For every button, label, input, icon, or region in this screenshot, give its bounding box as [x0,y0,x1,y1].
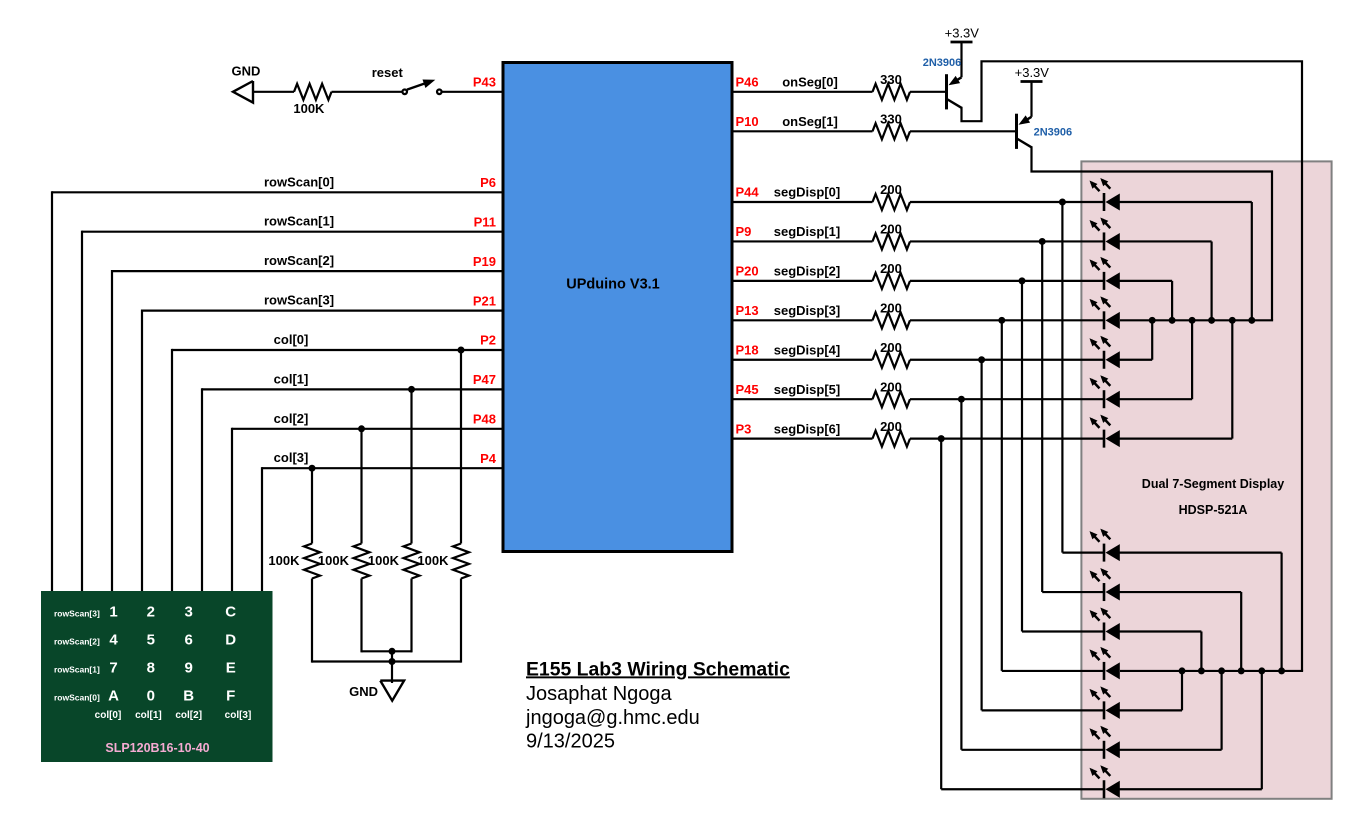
svg-text:1: 1 [109,604,117,621]
svg-text:rowScan[3]: rowScan[3] [264,293,334,308]
svg-text:P18: P18 [736,342,759,357]
svg-text:onSeg[0]: onSeg[0] [782,75,838,90]
svg-text:F: F [226,688,235,705]
svg-text:rowScan[2]: rowScan[2] [264,253,334,268]
svg-text:200: 200 [880,182,902,197]
svg-text:8: 8 [147,660,155,677]
svg-text:segDisp[4]: segDisp[4] [774,342,840,357]
svg-text:col[0]: col[0] [95,710,122,721]
svg-text:P9: P9 [736,224,752,239]
svg-text:C: C [225,604,236,621]
svg-text:200: 200 [880,222,902,237]
svg-text:P46: P46 [736,75,759,90]
svg-text:col[2]: col[2] [274,411,309,426]
svg-text:rowScan[3]: rowScan[3] [54,609,100,619]
svg-text:col[1]: col[1] [274,371,309,386]
svg-text:P11: P11 [474,214,496,229]
svg-text:330: 330 [880,112,902,127]
svg-text:200: 200 [880,261,902,276]
svg-text:2N3906: 2N3906 [1034,126,1073,138]
svg-text:4: 4 [109,632,118,649]
svg-text:+3.3V: +3.3V [1015,65,1050,80]
svg-text:D: D [225,632,236,649]
svg-text:P48: P48 [473,412,496,427]
svg-text:HDSP-521A: HDSP-521A [1179,503,1248,517]
svg-text:reset: reset [372,65,404,80]
svg-text:100K: 100K [417,553,449,568]
svg-text:2N3906: 2N3906 [923,57,962,69]
svg-text:200: 200 [880,340,902,355]
svg-text:P4: P4 [480,451,497,466]
svg-text:+3.3V: +3.3V [945,26,980,41]
svg-text:col[3]: col[3] [225,710,252,721]
svg-text:E: E [226,660,236,677]
svg-text:col[1]: col[1] [135,710,162,721]
svg-text:100K: 100K [268,553,300,568]
svg-text:6: 6 [185,632,193,649]
svg-text:P10: P10 [736,114,759,129]
svg-text:rowScan[0]: rowScan[0] [264,174,334,189]
svg-text:100K: 100K [318,553,350,568]
svg-text:col[3]: col[3] [274,450,309,465]
svg-text:100K: 100K [368,553,400,568]
svg-text:2: 2 [147,604,155,621]
svg-text:9/13/2025: 9/13/2025 [526,730,615,752]
svg-text:UPduino V3.1: UPduino V3.1 [566,277,659,293]
svg-text:E155 Lab3 Wiring Schematic: E155 Lab3 Wiring Schematic [526,658,790,680]
svg-text:segDisp[6]: segDisp[6] [774,421,840,436]
svg-text:P47: P47 [473,372,496,387]
svg-text:onSeg[1]: onSeg[1] [782,114,838,129]
svg-text:col[2]: col[2] [175,710,202,721]
svg-text:330: 330 [880,72,902,87]
svg-text:100K: 100K [293,101,325,116]
svg-text:3: 3 [185,604,193,621]
svg-text:P13: P13 [736,303,759,318]
svg-text:rowScan[2]: rowScan[2] [54,637,100,647]
svg-text:P6: P6 [480,175,496,190]
svg-text:segDisp[2]: segDisp[2] [774,264,840,279]
svg-text:rowScan[0]: rowScan[0] [54,693,100,703]
svg-text:7: 7 [109,660,117,677]
svg-text:200: 200 [880,419,902,434]
svg-text:col[0]: col[0] [274,332,309,347]
svg-text:jngoga@g.hmc.edu: jngoga@g.hmc.edu [525,707,700,729]
svg-text:A: A [108,688,119,705]
svg-text:P20: P20 [736,264,759,279]
svg-text:GND: GND [349,684,378,699]
svg-text:9: 9 [185,660,193,677]
svg-text:Dual 7-Segment Display: Dual 7-Segment Display [1142,477,1284,491]
svg-text:rowScan[1]: rowScan[1] [54,665,100,675]
svg-text:segDisp[3]: segDisp[3] [774,303,840,318]
svg-text:0: 0 [147,688,155,705]
svg-text:SLP120B16-10-40: SLP120B16-10-40 [105,741,209,755]
svg-text:rowScan[1]: rowScan[1] [264,214,334,229]
svg-text:200: 200 [880,379,902,394]
svg-text:segDisp[0]: segDisp[0] [774,185,840,200]
svg-text:GND: GND [232,64,261,79]
svg-text:Josaphat Ngoga: Josaphat Ngoga [526,683,673,705]
svg-text:P3: P3 [736,421,752,436]
svg-text:5: 5 [147,632,155,649]
svg-text:P2: P2 [480,333,496,348]
svg-text:segDisp[1]: segDisp[1] [774,224,840,239]
svg-text:200: 200 [880,301,902,316]
svg-text:P19: P19 [473,254,496,269]
svg-text:P21: P21 [473,293,496,308]
svg-text:B: B [183,688,194,705]
svg-text:segDisp[5]: segDisp[5] [774,382,840,397]
svg-text:P43: P43 [473,75,496,90]
svg-text:P45: P45 [736,382,759,397]
svg-text:P44: P44 [736,185,760,200]
